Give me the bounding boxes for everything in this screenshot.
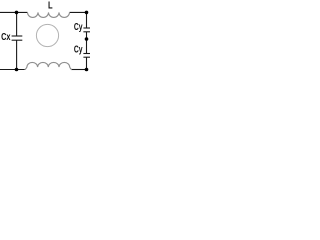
wire right branch seg3 bbox=[86, 57, 88, 69]
wire right branch seg2 bbox=[86, 32, 88, 54]
capacitor Cy lower bbox=[83, 53, 90, 55]
wire left branch upper bbox=[16, 12, 18, 36]
capacitor Cy upper bbox=[83, 27, 90, 29]
label Cy upper bbox=[74, 21, 83, 33]
wire top rail right bbox=[70, 11, 87, 13]
wire right branch seg1 bbox=[86, 12, 88, 28]
node mid-right bbox=[85, 37, 89, 41]
inductor bottom winding bbox=[25, 62, 73, 69]
inductor L (top winding) bbox=[28, 12, 70, 17]
wire left branch lower bbox=[16, 40, 18, 69]
capacitor Cx bbox=[12, 35, 23, 37]
svg-text:Cx: Cx bbox=[1, 31, 10, 43]
wire top rail left bbox=[0, 11, 28, 13]
label Cy lower bbox=[74, 43, 83, 55]
core circle bbox=[36, 24, 58, 46]
wire bottom rail left bbox=[0, 69, 26, 71]
wire bottom rail right bbox=[71, 69, 87, 71]
node top-right bbox=[85, 11, 89, 15]
label L bbox=[48, 0, 53, 11]
svg-text:Cy: Cy bbox=[74, 21, 83, 33]
svg-text:Cy: Cy bbox=[74, 43, 83, 55]
node bottom-left bbox=[15, 68, 19, 72]
node top-left bbox=[15, 11, 19, 15]
svg-text:L: L bbox=[48, 0, 53, 11]
node bottom-right bbox=[85, 68, 89, 72]
label Cx bbox=[1, 31, 10, 43]
